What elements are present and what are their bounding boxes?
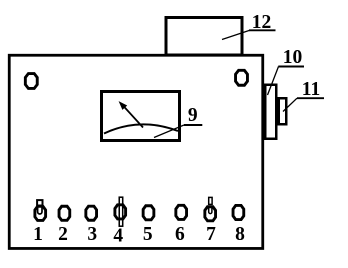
knob 1 circle xyxy=(35,206,46,220)
label 9 underline xyxy=(184,124,202,126)
knob 4 circle xyxy=(115,205,126,219)
leader line 11 xyxy=(283,98,297,111)
svg-text:11: 11 xyxy=(302,79,320,100)
knob 1 slot xyxy=(38,207,42,214)
knob 7 slot xyxy=(209,207,212,213)
knob 8 circle xyxy=(233,205,244,219)
knob 1 tab xyxy=(37,200,42,205)
svg-text:6: 6 xyxy=(175,224,185,245)
svg-text:3: 3 xyxy=(87,224,97,245)
meter scale arc xyxy=(104,124,178,133)
label 11 underline xyxy=(297,97,324,99)
leader line 10 xyxy=(268,67,279,96)
svg-text:9: 9 xyxy=(188,105,198,126)
needle arrowhead xyxy=(119,101,128,110)
svg-text:5: 5 xyxy=(143,224,153,245)
top box 12 xyxy=(166,18,242,56)
main panel box xyxy=(9,55,263,248)
knob 3 circle xyxy=(86,206,97,220)
knob 7 circle xyxy=(205,207,216,221)
rect 10 (right side connector) xyxy=(265,85,276,139)
meter 9 frame xyxy=(102,92,180,141)
svg-text:4: 4 xyxy=(113,225,123,246)
svg-text:1: 1 xyxy=(33,224,43,245)
leader line 12 xyxy=(222,30,250,39)
label 10 underline xyxy=(278,66,304,68)
knob 4 shaft bar xyxy=(119,197,122,226)
svg-text:7: 7 xyxy=(206,224,216,245)
leader line 9 xyxy=(154,125,184,138)
meter needle xyxy=(123,105,144,128)
label 12 underline xyxy=(249,29,276,31)
knob 5 circle xyxy=(143,206,154,220)
svg-text:8: 8 xyxy=(235,224,245,245)
screw right xyxy=(236,70,248,85)
rect 11 (small right connector) xyxy=(279,98,287,124)
knob 6 circle xyxy=(176,205,187,219)
knob 7 tab xyxy=(209,197,212,204)
svg-text:2: 2 xyxy=(58,224,68,245)
knob 2 circle xyxy=(59,206,70,220)
screw left xyxy=(25,74,37,89)
svg-text:10: 10 xyxy=(283,47,303,68)
